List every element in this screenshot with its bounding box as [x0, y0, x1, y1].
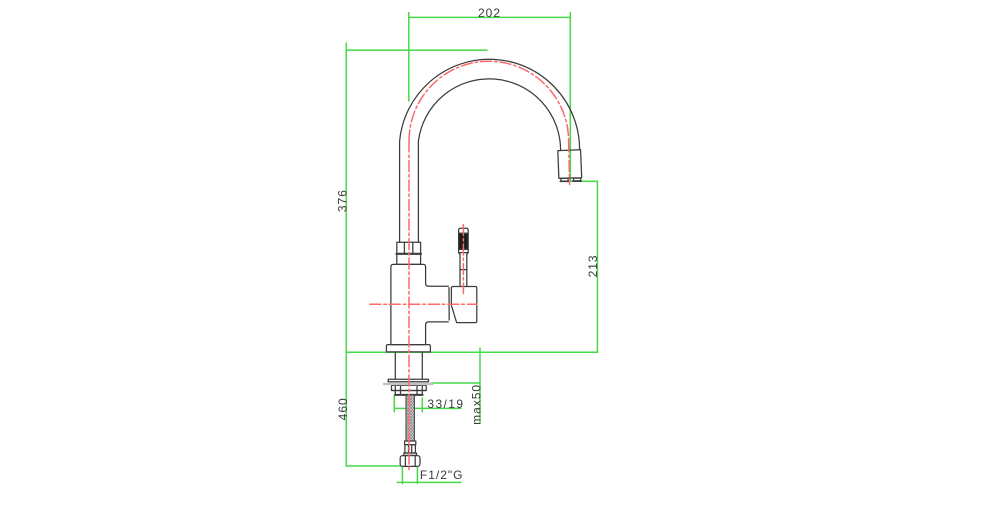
- hose fitting inner left: [408, 445, 410, 453]
- hose fitting inner right: [411, 445, 413, 453]
- extension line right of 202: [569, 13, 571, 182]
- mounting nut flat left: [400, 385, 402, 394]
- svg-text:376: 376: [335, 189, 349, 212]
- svg-text:460: 460: [336, 397, 350, 420]
- lever taper left: [459, 253, 460, 255]
- svg-text:202: 202: [478, 6, 501, 20]
- valve housing: [451, 287, 476, 323]
- centerline spout drop: [569, 141, 570, 185]
- base flange: [386, 345, 430, 352]
- dim line 213 (right vertical): [596, 181, 598, 352]
- hose fitting body: [405, 445, 416, 453]
- mounting nut lower: [392, 385, 427, 394]
- extension line max50 lower: [431, 382, 480, 384]
- spout outer profile: [400, 59, 580, 242]
- deck line: [346, 351, 597, 353]
- dim line max50 (vertical): [479, 348, 481, 423]
- svg-text:max50: max50: [469, 384, 483, 425]
- extension jog at aerator tip: [570, 180, 597, 182]
- hose fitting lower collar: [404, 453, 417, 455]
- dim line 376/460 (left vertical): [345, 43, 347, 466]
- lever cap: [459, 228, 469, 233]
- lever knurl: [459, 233, 469, 249]
- shank left: [394, 352, 396, 379]
- lever band: [459, 249, 469, 252]
- aerator tip heavy bottom right: [573, 180, 581, 182]
- centerline main vertical axis: [408, 141, 410, 471]
- tick 33/19 left: [393, 396, 395, 412]
- extension line bottom of 460: [346, 465, 400, 467]
- grey counter underside line: [384, 383, 432, 385]
- arm end cap: [448, 288, 450, 320]
- tick F1/2G right: [416, 468, 418, 484]
- mounting nut flat right: [416, 385, 418, 394]
- lever rod right: [466, 254, 468, 286]
- lever rod left: [459, 254, 461, 286]
- spout inner profile: [418, 79, 560, 242]
- supply hose braid: [406, 395, 414, 441]
- end nut flat left: [404, 456, 406, 466]
- svg-text:33/19: 33/19: [427, 397, 464, 411]
- extension line top of 376: [346, 49, 487, 51]
- end nut flat right: [414, 456, 416, 466]
- collar nut flat right: [412, 242, 414, 253]
- collar lower band: [397, 254, 421, 265]
- collar nut flat left: [403, 242, 405, 253]
- extension line left of 202: [408, 13, 410, 102]
- centerline lever: [462, 225, 464, 294]
- tick 33/19 right: [421, 398, 423, 412]
- aerator tip right: [573, 178, 580, 181]
- mounting nut heavy bottom: [395, 394, 423, 396]
- centerline spout arc: [409, 61, 569, 141]
- hose fitting collar: [405, 441, 416, 445]
- collar nut heavy bottom: [397, 253, 422, 255]
- dim line 202 (top horizontal): [409, 16, 571, 18]
- shank right: [421, 352, 423, 379]
- lever taper right: [467, 253, 468, 255]
- dim line F1/2G: [397, 481, 461, 483]
- aerator tip left: [561, 178, 568, 181]
- end nut F1/2: [400, 456, 420, 467]
- aerator body: [558, 150, 582, 179]
- aerator tip heavy bottom left: [560, 180, 568, 182]
- centerline horizontal body axis: [370, 303, 477, 305]
- mounting nut upper: [392, 385, 427, 390]
- svg-text:213: 213: [586, 254, 600, 277]
- tick F1/2G left: [401, 468, 403, 484]
- svg-text:F1/2"G: F1/2"G: [420, 468, 464, 482]
- dim line 33/19: [394, 407, 461, 409]
- collar hex nut: [397, 242, 421, 253]
- body with spout arm: [391, 264, 448, 344]
- lever rod joint: [460, 269, 467, 271]
- washer: [388, 379, 428, 382]
